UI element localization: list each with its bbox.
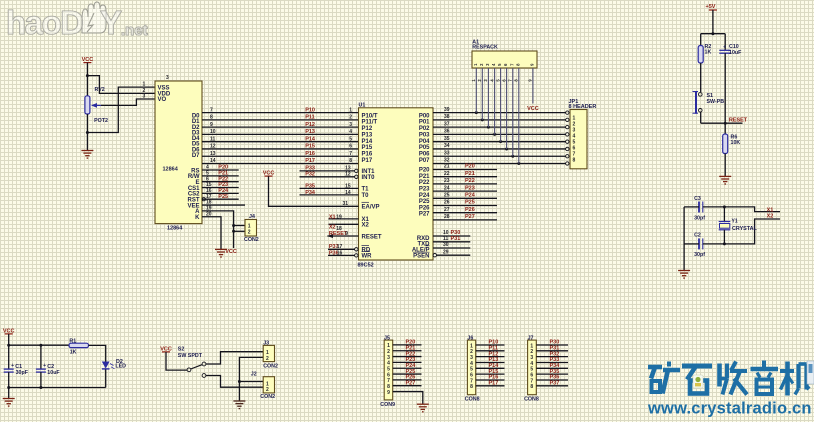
wire LCD RST to net P25: [202, 198, 239, 200]
svg-text:.net: .net: [121, 22, 148, 39]
svg-text:www.crystalradio.cn: www.crystalradio.cn: [647, 400, 812, 418]
wire P05: [433, 148, 566, 150]
bubble RST pin: [202, 198, 205, 201]
wire VCC to EA/VP: [269, 176, 359, 206]
svg-text:P34: P34: [305, 190, 316, 196]
svg-text:X2: X2: [362, 223, 370, 229]
wire P26: [433, 212, 497, 214]
svg-text:LED: LED: [115, 364, 126, 370]
svg-text:3: 3: [143, 93, 146, 99]
svg-text:P11/T: P11/T: [362, 120, 378, 126]
svg-text:21: 21: [444, 164, 450, 170]
LCD module 12864: [155, 81, 202, 224]
wire WR (net P36): [328, 254, 355, 256]
svg-text:6: 6: [349, 144, 352, 150]
wire D6/P16: [202, 155, 359, 157]
svg-text:P17: P17: [489, 381, 499, 387]
svg-text:CON2: CON2: [244, 237, 259, 243]
JP1 pin 4: [566, 133, 569, 136]
svg-text:P25: P25: [419, 199, 430, 205]
svg-text:RESPACK: RESPACK: [472, 45, 498, 51]
svg-text:P02: P02: [419, 126, 430, 132]
ground (reset divider): [719, 176, 731, 184]
svg-text:RD: RD: [362, 248, 371, 254]
svg-text:P31: P31: [451, 236, 461, 242]
junction P01/respack: [481, 118, 484, 121]
wire RD (net P37): [328, 248, 355, 250]
svg-text:X1: X1: [329, 214, 336, 220]
capacitor C2 (power): [40, 345, 42, 369]
svg-text:7: 7: [349, 151, 352, 157]
wire P22: [433, 183, 497, 185]
respack pin 9 to VCC: [532, 68, 534, 104]
wire pot bottom to ground: [86, 114, 88, 150]
svg-text:31: 31: [342, 201, 348, 207]
svg-text:39: 39: [444, 107, 450, 113]
respack pin 2: [481, 68, 483, 120]
wire throw1 to J3 pin1: [206, 352, 263, 364]
switch S1 SW-PB: [700, 63, 702, 92]
wire D1/P11: [202, 119, 359, 121]
wire RESET stub: [327, 235, 358, 237]
svg-text:P26: P26: [419, 205, 430, 211]
svg-text:CON8: CON8: [465, 397, 480, 403]
svg-text:3: 3: [166, 75, 169, 81]
svg-text:35: 35: [444, 136, 450, 142]
wire bottom rail: [9, 387, 106, 389]
wire LCD CS2 to net P24: [202, 192, 239, 194]
svg-text:9: 9: [387, 390, 390, 396]
wire P04: [433, 141, 566, 143]
svg-text:U1: U1: [359, 102, 366, 108]
capacitor C1: [4, 368, 14, 370]
svg-text:13: 13: [210, 151, 216, 157]
svg-text:14: 14: [345, 190, 351, 196]
svg-text:1K: 1K: [70, 349, 77, 355]
wire RXD (net P30): [433, 235, 470, 237]
junction P06/respack: [511, 155, 514, 158]
wire T0 (net P34): [300, 194, 359, 196]
svg-text:CON2: CON2: [263, 363, 278, 369]
wire J5 pin9 to ground: [393, 392, 423, 404]
svg-text:5: 5: [349, 136, 352, 142]
watermark haoDY.net logo: [6, 2, 148, 41]
wire throw2 to J2 pin2: [206, 376, 263, 388]
wire K to ground: [202, 217, 221, 249]
svg-text:12: 12: [345, 171, 351, 177]
svg-text:P11: P11: [305, 115, 314, 121]
svg-text:9: 9: [345, 231, 348, 237]
svg-text:WR: WR: [362, 254, 373, 260]
svg-text:P21: P21: [465, 171, 475, 177]
wire P03: [433, 133, 566, 135]
crystal Y1 CRYSTAL: [723, 207, 725, 222]
svg-text:+5V: +5V: [706, 4, 716, 10]
svg-text:17: 17: [337, 244, 343, 250]
wire P02: [433, 126, 566, 128]
wire D0/P10: [202, 112, 359, 114]
wire crystal bottom rail / X2: [684, 243, 699, 245]
svg-text:10uF: 10uF: [47, 370, 60, 376]
wire P24: [433, 197, 497, 199]
svg-text:10uF: 10uF: [729, 50, 742, 56]
svg-text:P13: P13: [305, 129, 315, 135]
svg-text:P14: P14: [362, 139, 373, 145]
svg-text:P20: P20: [419, 168, 430, 174]
svg-text:P22: P22: [465, 178, 475, 184]
junction P04/respack: [499, 140, 502, 143]
svg-text:D7: D7: [192, 153, 200, 159]
svg-text:10K: 10K: [731, 140, 741, 146]
junction P03/respack: [493, 133, 496, 136]
svg-text:PSEN: PSEN: [413, 254, 429, 260]
svg-text:11: 11: [443, 236, 449, 242]
svg-text:23: 23: [444, 178, 450, 184]
wire INT1 (net P33): [300, 170, 355, 172]
svg-text:1: 1: [349, 107, 352, 113]
svg-text:VO: VO: [158, 97, 167, 103]
wire J3 pin2 / J2 pin1 to ground: [239, 357, 263, 401]
ground (con2): [233, 401, 245, 409]
svg-text:37: 37: [444, 121, 450, 127]
svg-text:1K: 1K: [705, 50, 712, 56]
svg-text:EA/VP: EA/VP: [362, 205, 380, 211]
wire X1 stub: [329, 218, 359, 220]
svg-text:VSS: VSS: [158, 85, 170, 91]
svg-text:P25: P25: [218, 194, 228, 200]
svg-text:27: 27: [444, 207, 450, 213]
ground (J5): [417, 404, 429, 412]
ground (below pot): [81, 151, 93, 159]
wire LCD RS to net P20: [202, 169, 239, 171]
LED D2: [102, 362, 110, 369]
svg-text:29: 29: [443, 249, 449, 255]
svg-text:30pF: 30pF: [16, 370, 29, 376]
svg-text:1: 1: [143, 82, 146, 88]
wire D3/P13: [202, 133, 359, 135]
wire LCD CS1 to net P23: [202, 187, 239, 189]
svg-text:34: 34: [444, 143, 450, 149]
svg-text:INT0: INT0: [362, 175, 376, 181]
wire P23: [433, 190, 497, 192]
connector J4 CON2: [232, 224, 235, 227]
svg-text:P15: P15: [305, 144, 315, 150]
svg-text:8: 8: [573, 157, 576, 163]
ground (power entry): [3, 399, 15, 407]
resistor R1 1K: [69, 343, 89, 347]
svg-text:7: 7: [508, 79, 513, 82]
wire P20: [433, 169, 497, 171]
svg-text:P35: P35: [305, 184, 315, 190]
svg-text:P37: P37: [550, 381, 560, 387]
respack pin 7: [512, 68, 514, 156]
svg-text:3: 3: [349, 122, 352, 128]
svg-text:P24: P24: [465, 193, 476, 199]
svg-text:J4: J4: [249, 214, 255, 220]
wire P27: [433, 219, 497, 221]
svg-text:VCC: VCC: [225, 249, 237, 255]
svg-text:12864: 12864: [167, 225, 183, 231]
wire INT0 (net P32): [300, 176, 355, 178]
svg-text:8: 8: [349, 158, 352, 164]
svg-text:89C52: 89C52: [358, 263, 374, 269]
junction P02/respack: [487, 126, 490, 129]
wire VEE stub: [202, 204, 245, 206]
crystalradio logo text: [648, 361, 810, 396]
respack pin 5: [500, 68, 502, 142]
wire X2 stub: [329, 223, 359, 225]
svg-text:RESET: RESET: [729, 117, 748, 123]
wire P21: [433, 176, 497, 178]
svg-text:+: +: [43, 363, 46, 369]
svg-text:36: 36: [444, 129, 450, 135]
svg-text:12864: 12864: [163, 167, 179, 173]
svg-text:CRYSTAL: CRYSTAL: [732, 226, 758, 232]
svg-text:7: 7: [210, 107, 213, 113]
svg-text:P10: P10: [305, 107, 315, 113]
svg-text:CON9: CON9: [380, 402, 395, 408]
svg-text:P24: P24: [419, 193, 430, 199]
svg-text:VCC: VCC: [527, 106, 539, 112]
wire PSEN stub: [433, 254, 436, 257]
potentiometer RV2 (POT2): [85, 96, 90, 114]
JP1 pin 7: [566, 155, 569, 158]
wire LED to bottom rail: [105, 370, 107, 388]
wire P25: [433, 205, 497, 207]
svg-text:SW-PB: SW-PB: [707, 99, 725, 105]
svg-text:9: 9: [210, 122, 213, 128]
respack pin 6: [506, 68, 508, 149]
JP1 pin 6: [566, 147, 569, 150]
respack pin 4: [494, 68, 496, 134]
wire top rail: [701, 33, 726, 35]
wire A to VCC: [202, 211, 234, 248]
wire VO from wiper: [101, 99, 155, 105]
svg-text:P01: P01: [419, 120, 430, 126]
resistor R6 10K: [724, 123, 726, 134]
junction P07/respack: [517, 162, 520, 165]
wire P06: [433, 155, 566, 157]
wire top rail: [9, 344, 69, 346]
svg-text:P21: P21: [419, 174, 430, 180]
svg-text:8: 8: [530, 384, 533, 390]
svg-text:+: +: [11, 363, 14, 369]
junction P05/respack: [505, 147, 508, 150]
svg-text:T0: T0: [362, 193, 370, 199]
svg-text:Y1: Y1: [732, 218, 738, 224]
svg-text:P07: P07: [419, 158, 430, 164]
svg-text:2: 2: [266, 356, 269, 362]
svg-text:P16: P16: [362, 151, 373, 157]
MCU U1 89C52: [359, 108, 434, 260]
svg-text:S2: S2: [178, 346, 185, 352]
svg-text:P27: P27: [465, 214, 475, 220]
wire crystal left vertical to ground: [683, 207, 685, 271]
switch S2 SW SPDT: [187, 368, 191, 372]
ground (crystal): [678, 271, 690, 279]
JP1 pin 2: [566, 118, 569, 121]
svg-text:P15: P15: [362, 145, 373, 151]
svg-text:CON8: CON8: [524, 397, 539, 403]
svg-text:19: 19: [336, 214, 342, 220]
svg-text:P25: P25: [465, 200, 475, 206]
svg-text:24: 24: [444, 185, 450, 191]
svg-text:2: 2: [349, 115, 352, 121]
svg-text:2: 2: [248, 230, 251, 236]
wire T1 (net P35): [300, 187, 359, 189]
svg-text:P06: P06: [419, 151, 430, 157]
svg-text:10: 10: [210, 129, 216, 135]
svg-text:4: 4: [349, 129, 352, 135]
svg-text:K: K: [195, 215, 200, 221]
svg-text:P13: P13: [362, 132, 373, 138]
wire LCD E to net P22: [202, 181, 239, 183]
wire D5/P15: [202, 148, 359, 150]
respack pin 8: [518, 68, 520, 163]
svg-text:P12: P12: [362, 126, 373, 132]
wire P01: [433, 119, 566, 121]
svg-text:P12: P12: [305, 122, 315, 128]
svg-text:P23: P23: [465, 185, 475, 191]
svg-text:25: 25: [444, 193, 450, 199]
wire LCD R/W to net P21: [202, 175, 239, 177]
wire VCC to switch pole: [166, 352, 187, 370]
svg-text:28: 28: [444, 214, 450, 220]
respack pin 3: [487, 68, 489, 127]
wire R6 to ground: [724, 154, 726, 177]
svg-text:C2: C2: [47, 364, 54, 370]
svg-text:+: +: [723, 45, 726, 51]
svg-text:P26: P26: [465, 207, 475, 213]
svg-text:30: 30: [443, 242, 449, 248]
svg-text:T1: T1: [362, 187, 370, 193]
svg-text:11: 11: [210, 136, 216, 142]
svg-text:CON2: CON2: [260, 394, 275, 400]
wire D7/P17: [202, 162, 359, 164]
svg-text:2: 2: [266, 387, 269, 393]
svg-text:P32: P32: [305, 171, 315, 177]
svg-text:P17: P17: [362, 158, 373, 164]
svg-text:SW SPDT: SW SPDT: [178, 353, 203, 359]
svg-text:P23: P23: [419, 187, 430, 193]
svg-text:X1: X1: [767, 207, 774, 213]
svg-text:15: 15: [345, 184, 351, 190]
svg-text:8: 8: [210, 115, 213, 121]
svg-text:P00: P00: [419, 113, 430, 119]
svg-text:8: 8: [470, 384, 473, 390]
svg-text:30pf: 30pf: [694, 252, 705, 258]
svg-text:22: 22: [444, 171, 450, 177]
wire +5V stem: [712, 10, 714, 34]
wire TXD (net P31): [433, 241, 470, 243]
respack pin 1: [475, 68, 477, 113]
svg-text:20: 20: [206, 211, 212, 217]
svg-text:P27: P27: [406, 380, 416, 386]
svg-text:38: 38: [444, 114, 450, 120]
svg-text:30pf: 30pf: [694, 215, 705, 221]
wire VSS branch: [87, 87, 155, 132]
svg-text:RESET: RESET: [362, 234, 382, 240]
svg-text:P14: P14: [305, 136, 316, 142]
wire VCC to pot: [86, 63, 88, 96]
svg-text:12: 12: [210, 144, 216, 150]
svg-text:C1: C1: [15, 364, 22, 370]
wire P00: [433, 112, 566, 114]
svg-text:P10/T: P10/T: [362, 113, 378, 119]
svg-text:X2: X2: [329, 225, 336, 231]
JP1 pin 8: [566, 162, 569, 165]
wire VDD branch: [87, 76, 155, 94]
svg-text:33: 33: [444, 150, 450, 156]
JP1 pin 1: [566, 111, 569, 114]
svg-text:J2: J2: [251, 372, 257, 378]
svg-text:14: 14: [210, 158, 216, 164]
svg-text:P22: P22: [419, 180, 430, 186]
JP1 pin 5: [566, 140, 569, 143]
JP1 pin 3: [566, 125, 569, 128]
svg-text:R1: R1: [69, 338, 76, 344]
svg-text:P16: P16: [305, 151, 315, 157]
wire R1 to LED: [89, 345, 106, 361]
svg-text:C2: C2: [694, 233, 701, 239]
svg-text:Y: Y: [100, 4, 122, 41]
svg-text:P05: P05: [419, 145, 430, 151]
svg-text:C3: C3: [694, 196, 701, 202]
wire D2/P12: [202, 126, 359, 128]
wire to ground: [8, 388, 10, 399]
svg-text:P04: P04: [419, 139, 430, 145]
svg-text:P03: P03: [419, 132, 430, 138]
svg-text:16: 16: [337, 250, 343, 256]
svg-text:P17: P17: [305, 158, 315, 164]
wire D4/P14: [202, 141, 359, 143]
capacitor C10 10uF: [724, 34, 726, 50]
wire VCC stem: [8, 334, 10, 369]
svg-text:X2: X2: [767, 214, 774, 220]
wire P07: [433, 162, 566, 164]
svg-text:POT2: POT2: [94, 118, 108, 124]
wire crystal top rail / X1: [684, 206, 699, 208]
svg-text:26: 26: [444, 200, 450, 206]
svg-text:P27: P27: [419, 212, 430, 218]
svg-text:P20: P20: [465, 164, 475, 170]
logo icon (in 石): [693, 375, 703, 388]
ground (LCD K): [215, 249, 227, 257]
resistor R2 1K: [700, 34, 702, 46]
wire reset junction rail: [701, 122, 743, 124]
wire ALE stub: [433, 247, 470, 249]
svg-text:haoD: haoD: [6, 4, 83, 41]
junction P00/respack: [475, 111, 478, 114]
